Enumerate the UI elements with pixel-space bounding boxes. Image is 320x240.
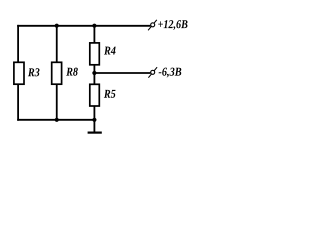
wire top horizontal bus [17, 25, 150, 27]
wire right branch vertical [93, 26, 95, 120]
resistor R3 [14, 62, 40, 84]
junction top wire / R8 branch [55, 24, 59, 28]
label -6,3V [159, 68, 182, 78]
wire left branch vertical [17, 25, 19, 121]
resistor R8 [52, 62, 78, 84]
wire R8 branch vertical [56, 26, 58, 120]
wire -6,3V horizontal [94, 72, 150, 74]
resistor R5 [90, 84, 116, 106]
junction bottom wire / right branch / ground [92, 118, 96, 122]
junction bottom wire / R8 branch [55, 118, 59, 122]
junction top wire / right branch [92, 24, 96, 28]
resistor R4 [90, 43, 116, 65]
terminal +12,6V [148, 20, 157, 31]
wire bottom horizontal [17, 119, 94, 121]
ground [88, 120, 102, 133]
terminal -6,3V [148, 67, 157, 78]
label +12,6V [158, 20, 187, 30]
junction right branch / -6,3V wire [92, 71, 96, 75]
